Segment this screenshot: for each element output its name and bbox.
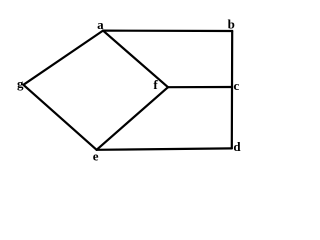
svg-text:c: c	[234, 78, 240, 93]
svg-text:f: f	[153, 77, 158, 92]
wire b-c-d (right vertical edge)	[231, 31, 234, 148]
svg-text:a: a	[97, 17, 104, 32]
svg-text:d: d	[233, 139, 241, 154]
wire f-e	[97, 87, 168, 150]
wire f-c	[168, 86, 232, 88]
wire a-g	[23, 31, 103, 85]
svg-text:b: b	[228, 17, 235, 32]
wire g-e	[23, 85, 96, 150]
wire a-b (top edge)	[103, 30, 232, 33]
wire e-d (bottom edge)	[97, 148, 232, 149]
svg-text:e: e	[93, 149, 99, 164]
svg-text:g: g	[17, 76, 24, 91]
wire a-f	[103, 31, 168, 88]
